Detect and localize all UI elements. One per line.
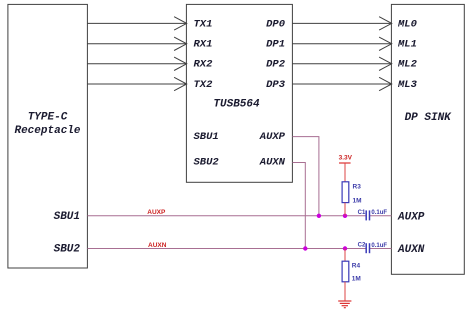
- arrowhead TX2: [174, 77, 187, 90]
- svg-text:TUSB564: TUSB564: [213, 99, 260, 111]
- svg-text:SBU2: SBU2: [54, 244, 81, 256]
- wire net AUXP (cap to DP SINK): [370, 215, 392, 217]
- svg-text:AUXN: AUXN: [259, 157, 286, 169]
- capacitor C1: [358, 210, 388, 221]
- svg-text:RX2: RX2: [194, 59, 214, 71]
- wire AUXP from TUSB564: [292, 137, 319, 216]
- svg-text:C1: C1: [358, 210, 366, 216]
- svg-text:AUXN: AUXN: [397, 244, 425, 256]
- junction AUXP x345: [343, 214, 347, 218]
- ground: [338, 301, 351, 308]
- svg-text:SBU2: SBU2: [194, 157, 220, 169]
- svg-text:ML1: ML1: [397, 39, 417, 51]
- svg-text:DP0: DP0: [266, 18, 285, 30]
- svg-text:0.1uF: 0.1uF: [371, 210, 387, 216]
- arrowhead RX1: [174, 37, 187, 50]
- block TUSB564 U1: [186, 4, 292, 182]
- arrowhead ML0: [379, 17, 392, 30]
- block DP SINK: [391, 4, 464, 274]
- svg-text:TX1: TX1: [194, 18, 213, 30]
- svg-text:C2: C2: [358, 243, 366, 249]
- junction AUXP x318.9: [317, 214, 321, 218]
- svg-text:DP2: DP2: [266, 59, 286, 71]
- capacitor C2: [358, 243, 388, 254]
- svg-text:AUXP: AUXP: [259, 131, 286, 143]
- block TYPE-C Receptacle: [8, 4, 88, 268]
- svg-text:0.1uF: 0.1uF: [371, 243, 387, 249]
- svg-text:TYPE-C: TYPE-C: [28, 112, 68, 124]
- wire TX1 (Type-C to TUSB564): [87, 22, 186, 24]
- wire R4 to ground: [344, 282, 346, 301]
- svg-text:SBU1: SBU1: [54, 211, 80, 223]
- wire net AUXN (SBU2 run): [87, 248, 366, 250]
- arrowhead ML2: [379, 57, 392, 70]
- svg-text:Receptacle: Receptacle: [14, 125, 80, 137]
- svg-text:DP1: DP1: [266, 39, 285, 51]
- svg-text:TX2: TX2: [194, 79, 214, 91]
- junction AUXN x305.3: [303, 246, 307, 250]
- arrowhead RX2: [174, 57, 187, 70]
- wire net AUXN (cap to DP SINK): [370, 248, 392, 250]
- wire DP0 to ML0: [292, 22, 391, 24]
- wire RX1: [87, 43, 186, 45]
- svg-text:1M: 1M: [353, 197, 362, 204]
- power 3.3V: [339, 155, 353, 182]
- wire TX2: [87, 83, 186, 85]
- svg-text:1M: 1M: [352, 276, 361, 283]
- svg-text:R4: R4: [352, 263, 361, 270]
- arrowhead ML1: [379, 37, 392, 50]
- wire DP1 to ML1: [292, 43, 391, 45]
- svg-text:AUXP: AUXP: [147, 209, 166, 216]
- svg-text:R3: R3: [353, 183, 362, 190]
- svg-text:ML2: ML2: [397, 59, 418, 71]
- svg-text:AUXN: AUXN: [148, 242, 167, 249]
- wire DP2 to ML2: [292, 63, 391, 65]
- arrowhead ML3: [379, 77, 392, 90]
- svg-text:ML0: ML0: [397, 18, 417, 30]
- svg-text:SBU1: SBU1: [194, 131, 219, 143]
- resistor R3: [342, 182, 361, 205]
- svg-text:DP3: DP3: [266, 79, 286, 91]
- wire RX2: [87, 63, 186, 65]
- resistor R4: [342, 249, 361, 283]
- svg-text:3.3V: 3.3V: [339, 155, 353, 162]
- svg-text:ML3: ML3: [397, 79, 418, 91]
- wire AUXN from TUSB564: [292, 163, 305, 249]
- wire DP3 to ML3: [292, 83, 391, 85]
- svg-text:DP SINK: DP SINK: [405, 112, 453, 124]
- wire R3 to AUXP: [344, 203, 346, 216]
- junction AUXN x345: [343, 246, 347, 250]
- svg-text:RX1: RX1: [194, 39, 213, 51]
- arrowhead TX1: [174, 17, 187, 30]
- wire net AUXP (SBU1 run): [87, 215, 366, 217]
- svg-text:AUXP: AUXP: [397, 211, 425, 223]
